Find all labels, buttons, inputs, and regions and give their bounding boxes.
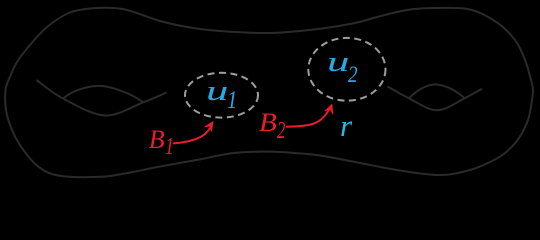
left hole lower curve [37,80,167,116]
right hole upper arc [409,84,465,98]
label r [340,110,352,141]
arrow B2 to u2 [286,109,330,127]
right hole lower curve [388,87,483,111]
dashed ellipse u2 [308,38,385,101]
left hole upper arc [63,86,143,102]
dashed ellipse u1 [185,73,258,118]
label B1 [149,127,165,153]
label u2 [327,49,349,77]
arrow B1 to u1 [173,126,212,144]
genus-2 surface outer boundary [5,8,533,177]
label u1 [206,78,228,106]
label B2 [259,110,277,136]
